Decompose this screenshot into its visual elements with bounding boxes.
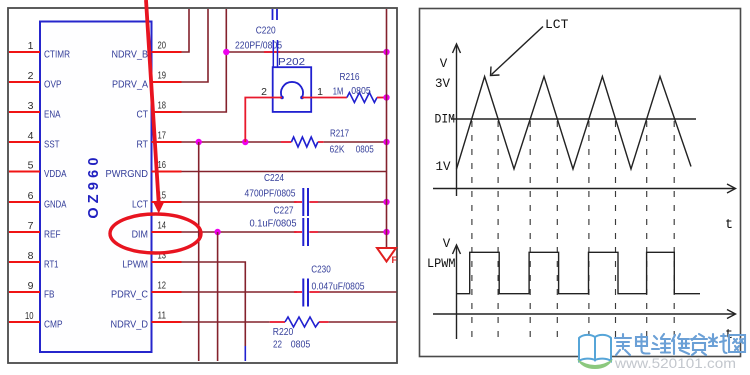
wire RT net bbox=[182, 141, 387, 143]
watermark chinese text bbox=[615, 334, 745, 355]
pin 8 RT1 bbox=[9, 250, 59, 270]
left schematic panel frame bbox=[8, 8, 397, 363]
svg-text:LCT: LCT bbox=[132, 199, 148, 211]
svg-text:V: V bbox=[443, 237, 451, 251]
svg-text:1M: 1M bbox=[333, 86, 344, 98]
svg-text:R216: R216 bbox=[340, 71, 360, 83]
wire LCT net bbox=[182, 201, 387, 203]
svg-text:220PF/0805: 220PF/0805 bbox=[235, 40, 282, 52]
svg-text:R220: R220 bbox=[273, 326, 294, 338]
svg-text:F: F bbox=[392, 255, 398, 265]
right waveform panel frame bbox=[420, 9, 741, 357]
op-amp U1 OZ960 chip body bbox=[40, 22, 152, 353]
pin 17 RT bbox=[137, 130, 182, 151]
svg-text:V: V bbox=[440, 57, 448, 71]
svg-text:CT: CT bbox=[137, 109, 149, 121]
capacitor C224 bbox=[245, 172, 309, 216]
svg-text:LCT: LCT bbox=[545, 17, 569, 32]
wire pin18 vertical to top bbox=[182, 9, 227, 112]
svg-text:0805: 0805 bbox=[291, 339, 311, 351]
svg-text:OVP: OVP bbox=[44, 79, 62, 91]
pin 4 SST bbox=[9, 130, 60, 150]
pin 10 CMP bbox=[9, 310, 63, 330]
wire DIM net bbox=[182, 231, 387, 233]
svg-text:PDRV_A: PDRV_A bbox=[112, 79, 148, 91]
pin 12 PDRV_C bbox=[111, 280, 182, 301]
LCT triangle waveform bbox=[457, 77, 692, 170]
pin 1 CTIMR bbox=[9, 40, 70, 60]
node DIM bus junction bbox=[383, 229, 389, 235]
wire pin19 to top bbox=[182, 9, 209, 82]
node RT junction B bbox=[242, 139, 248, 145]
svg-text:PWRGND: PWRGND bbox=[106, 168, 149, 180]
svg-text:SST: SST bbox=[44, 139, 60, 151]
svg-text:C230: C230 bbox=[311, 264, 331, 276]
waveform top graph y-axis bbox=[435, 44, 461, 196]
wire LPWM net down bbox=[182, 262, 246, 361]
resistor R220 bbox=[273, 317, 319, 351]
svg-text:GNDA: GNDA bbox=[44, 199, 67, 211]
watermark book icon bbox=[577, 335, 613, 369]
svg-text:3V: 3V bbox=[435, 77, 451, 91]
pin 13 LPWM bbox=[122, 250, 181, 271]
red annotation arrow to DIM pin bbox=[146, 0, 164, 214]
svg-text:ENA: ENA bbox=[44, 109, 61, 121]
DIM level line bbox=[451, 118, 696, 120]
pin 7 REF bbox=[9, 220, 61, 240]
wire CT net horizontal to bus bbox=[226, 51, 386, 53]
wire right bus vertical bbox=[386, 9, 388, 248]
pin 20 NDRV_B bbox=[112, 40, 182, 61]
pin 2 of P202 bbox=[245, 86, 282, 142]
svg-text:9: 9 bbox=[28, 280, 34, 292]
capacitor C227 bbox=[250, 205, 309, 247]
node R216 bus junction bbox=[383, 94, 389, 100]
svg-text:C220: C220 bbox=[256, 25, 276, 37]
svg-text:14: 14 bbox=[158, 220, 167, 232]
svg-text:12: 12 bbox=[158, 280, 167, 292]
watermark url text bbox=[614, 356, 736, 371]
waveform top graph t-axis bbox=[433, 184, 736, 233]
svg-text:R217: R217 bbox=[330, 128, 349, 140]
svg-text:1: 1 bbox=[317, 86, 323, 98]
node RT junction A bbox=[196, 139, 202, 145]
svg-text:C227: C227 bbox=[274, 205, 294, 217]
svg-text:0.1uF/0805: 0.1uF/0805 bbox=[250, 218, 297, 230]
svg-text:17: 17 bbox=[158, 130, 167, 142]
svg-text:8: 8 bbox=[28, 250, 34, 262]
svg-text:NDRV_B: NDRV_B bbox=[112, 49, 149, 61]
svg-text:1V: 1V bbox=[435, 160, 451, 174]
wire PWRGND to bus bbox=[182, 171, 387, 173]
waveform bottom graph t-axis bbox=[433, 310, 736, 344]
pin 14 DIM bbox=[132, 220, 182, 241]
svg-text:16: 16 bbox=[158, 159, 167, 171]
node CT junction bbox=[223, 49, 229, 55]
svg-text:19: 19 bbox=[158, 70, 167, 82]
svg-text:VDDA: VDDA bbox=[44, 168, 67, 180]
waveform bottom graph y-axis bbox=[427, 237, 461, 339]
svg-text:0.047uF/0805: 0.047uF/0805 bbox=[312, 281, 365, 293]
svg-text:LPWM: LPWM bbox=[122, 259, 148, 271]
svg-text:18: 18 bbox=[158, 100, 167, 112]
pin 9 FB bbox=[9, 280, 55, 300]
pin 15 LCT bbox=[132, 190, 182, 211]
svg-text:11: 11 bbox=[158, 310, 167, 322]
svg-text:RT: RT bbox=[137, 139, 149, 151]
pin 11 NDRV_D bbox=[111, 310, 182, 331]
svg-text:5: 5 bbox=[28, 160, 34, 172]
svg-text:www.520101.com: www.520101.com bbox=[614, 356, 736, 371]
node LCT bus junction bbox=[383, 199, 389, 205]
resistor R216 bbox=[333, 71, 387, 103]
svg-text:RT1: RT1 bbox=[44, 259, 59, 271]
capacitor C230 bbox=[303, 264, 364, 307]
dashed timing lines bbox=[472, 121, 674, 345]
wire PDRV_C net bbox=[182, 291, 397, 293]
svg-text:10: 10 bbox=[25, 310, 34, 322]
svg-text:4: 4 bbox=[28, 130, 34, 142]
svg-text:P202: P202 bbox=[278, 56, 305, 68]
transformer P202 box bbox=[273, 56, 312, 112]
svg-text:DIM: DIM bbox=[132, 229, 148, 241]
pin 2 OVP bbox=[9, 70, 62, 90]
svg-text:t: t bbox=[725, 218, 733, 233]
wire NDRV_D net bbox=[182, 321, 397, 323]
LPWM square waveform bbox=[457, 252, 701, 293]
svg-text:62K: 62K bbox=[330, 144, 345, 156]
svg-text:OZ960: OZ960 bbox=[86, 153, 102, 218]
pin 1 of P202 wire to R216 bbox=[302, 86, 347, 98]
power symbol F triangle bbox=[377, 248, 398, 265]
capacitor C220 bbox=[235, 9, 282, 52]
svg-text:PDRV_C: PDRV_C bbox=[111, 289, 148, 301]
red annotation ellipse around DIM bbox=[110, 214, 201, 253]
pin 6 GNDA bbox=[9, 190, 67, 210]
node RT bus junction bbox=[383, 139, 389, 145]
svg-text:1: 1 bbox=[28, 40, 34, 52]
svg-text:6: 6 bbox=[28, 190, 34, 202]
node CT bus junction bbox=[383, 49, 389, 55]
node DIM junction bbox=[214, 229, 220, 235]
pin 3 ENA bbox=[9, 100, 61, 120]
pin 16 PWRGND bbox=[106, 159, 182, 180]
wire DIM branch down to bottom bbox=[217, 232, 219, 361]
pin 5 VDDA bbox=[9, 160, 67, 180]
resistor R217 bbox=[291, 128, 374, 156]
svg-text:0805: 0805 bbox=[356, 144, 374, 156]
svg-text:7: 7 bbox=[28, 220, 34, 232]
wire pin20 to top bbox=[182, 9, 190, 52]
wire C220 leads to P202 bbox=[273, 40, 277, 67]
svg-text:2: 2 bbox=[28, 70, 34, 82]
pin 18 CT bbox=[137, 100, 182, 121]
svg-text:LPWM: LPWM bbox=[427, 257, 456, 271]
svg-text:20: 20 bbox=[158, 40, 167, 52]
svg-text:4700PF/0805: 4700PF/0805 bbox=[245, 188, 296, 200]
svg-text:CTIMR: CTIMR bbox=[44, 49, 70, 61]
svg-text:FB: FB bbox=[44, 289, 55, 301]
svg-text:CMP: CMP bbox=[44, 319, 63, 331]
svg-text:0805: 0805 bbox=[351, 85, 371, 97]
svg-text:3: 3 bbox=[28, 100, 34, 112]
svg-text:2: 2 bbox=[261, 86, 267, 98]
svg-text:REF: REF bbox=[44, 229, 61, 241]
pin 19 PDRV_A bbox=[112, 70, 182, 91]
svg-text:22: 22 bbox=[273, 339, 282, 351]
wire RT branch down to bottom bbox=[198, 142, 200, 361]
LCT label and arrow bbox=[491, 17, 569, 76]
svg-text:C224: C224 bbox=[264, 172, 284, 184]
svg-text:NDRV_D: NDRV_D bbox=[111, 319, 149, 331]
